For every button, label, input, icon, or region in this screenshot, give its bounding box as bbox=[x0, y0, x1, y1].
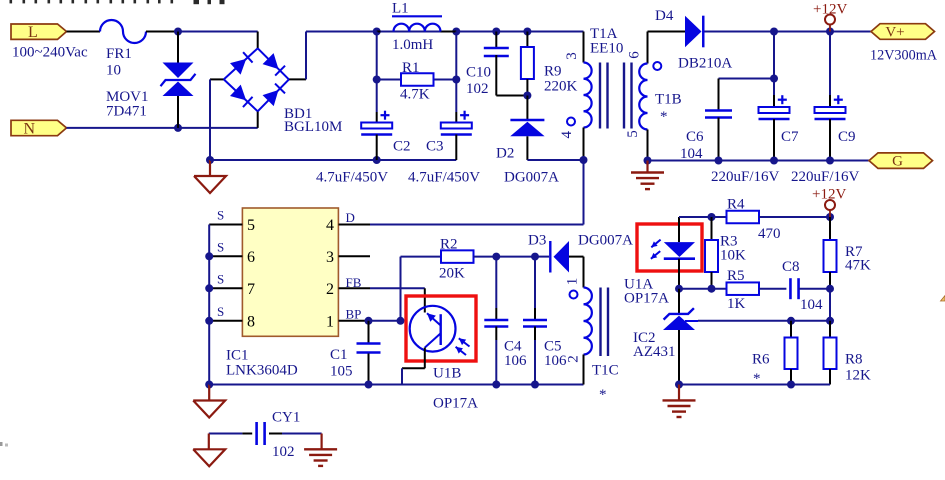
svg-text:106: 106 bbox=[504, 353, 527, 369]
svg-text:FR1: FR1 bbox=[106, 46, 132, 62]
svg-text:DG007A: DG007A bbox=[578, 233, 633, 249]
svg-text:7D471: 7D471 bbox=[106, 104, 147, 120]
svg-text:8: 8 bbox=[247, 313, 255, 330]
svg-text:*: * bbox=[599, 387, 607, 403]
svg-text:EE10: EE10 bbox=[590, 41, 623, 57]
svg-text:LNK3604D: LNK3604D bbox=[226, 363, 298, 379]
svg-text:12K: 12K bbox=[845, 368, 871, 384]
svg-text:220uF/16V: 220uF/16V bbox=[711, 169, 780, 185]
svg-text:3: 3 bbox=[564, 52, 580, 60]
svg-text:6: 6 bbox=[247, 249, 255, 266]
svg-text:IC1: IC1 bbox=[226, 348, 249, 364]
svg-text:V+: V+ bbox=[885, 25, 904, 41]
svg-text:C8: C8 bbox=[782, 259, 800, 275]
svg-text:102: 102 bbox=[272, 444, 295, 460]
svg-text:BGL10M: BGL10M bbox=[284, 119, 342, 135]
svg-text:R1: R1 bbox=[402, 60, 420, 76]
svg-text:5: 5 bbox=[625, 130, 641, 138]
svg-text:U1B: U1B bbox=[433, 366, 461, 382]
svg-text:C6: C6 bbox=[686, 129, 704, 145]
svg-text:12V300mA: 12V300mA bbox=[870, 48, 938, 64]
svg-text:220K: 220K bbox=[544, 79, 578, 95]
svg-text:20K: 20K bbox=[439, 266, 465, 282]
svg-text:6: 6 bbox=[626, 51, 642, 59]
svg-text:2: 2 bbox=[326, 281, 334, 298]
svg-text:1: 1 bbox=[564, 278, 580, 286]
svg-text:4.7uF/450V: 4.7uF/450V bbox=[408, 170, 480, 186]
svg-text:4.7K: 4.7K bbox=[400, 87, 430, 103]
svg-text:R2: R2 bbox=[440, 237, 458, 253]
svg-text:4: 4 bbox=[559, 131, 575, 139]
svg-text:R6: R6 bbox=[752, 352, 770, 368]
svg-text:1K: 1K bbox=[727, 296, 746, 312]
svg-text:D2: D2 bbox=[496, 146, 514, 162]
svg-text:N: N bbox=[24, 121, 36, 138]
svg-text:105: 105 bbox=[330, 364, 353, 380]
svg-text:CY1: CY1 bbox=[272, 410, 300, 426]
svg-text:2: 2 bbox=[566, 355, 582, 363]
svg-text:FB: FB bbox=[346, 275, 362, 290]
svg-text:C3: C3 bbox=[426, 139, 444, 155]
svg-text:L1: L1 bbox=[392, 1, 409, 17]
svg-text:R4: R4 bbox=[727, 197, 745, 213]
svg-text:104: 104 bbox=[800, 297, 823, 313]
svg-text:+12V: +12V bbox=[813, 2, 847, 18]
svg-text:D3: D3 bbox=[528, 233, 546, 249]
svg-text:DG007A: DG007A bbox=[504, 170, 559, 186]
svg-text:R5: R5 bbox=[727, 268, 745, 284]
svg-text:AZ431: AZ431 bbox=[633, 344, 676, 360]
svg-text:220uF/16V: 220uF/16V bbox=[791, 169, 860, 185]
svg-text:470: 470 bbox=[758, 226, 781, 242]
svg-text:10: 10 bbox=[106, 63, 121, 79]
svg-text:R8: R8 bbox=[845, 352, 863, 368]
svg-text:4: 4 bbox=[326, 217, 334, 234]
svg-text:7: 7 bbox=[247, 281, 255, 298]
svg-text:S: S bbox=[217, 304, 224, 319]
svg-text:R9: R9 bbox=[544, 64, 562, 80]
svg-text:OP17A: OP17A bbox=[433, 396, 478, 412]
svg-text:BP: BP bbox=[346, 307, 362, 322]
svg-text:C1: C1 bbox=[330, 347, 348, 363]
svg-text:D: D bbox=[346, 210, 355, 225]
svg-text:C9: C9 bbox=[838, 129, 856, 145]
svg-text:100~240Vac: 100~240Vac bbox=[12, 45, 88, 61]
svg-text:T1B: T1B bbox=[655, 92, 682, 108]
svg-text:C10: C10 bbox=[466, 65, 491, 81]
svg-text:S: S bbox=[217, 239, 224, 254]
svg-text:4.7uF/450V: 4.7uF/450V bbox=[316, 170, 388, 186]
svg-text:OP17A: OP17A bbox=[624, 291, 669, 307]
svg-text:*: * bbox=[660, 109, 668, 125]
svg-text:3: 3 bbox=[326, 249, 334, 266]
svg-text:S: S bbox=[217, 271, 224, 286]
svg-text:106: 106 bbox=[544, 353, 567, 369]
svg-text:T1C: T1C bbox=[592, 363, 619, 379]
svg-text:5: 5 bbox=[247, 217, 255, 234]
svg-text:1: 1 bbox=[326, 313, 334, 330]
svg-text:102: 102 bbox=[466, 81, 489, 97]
svg-text:104: 104 bbox=[680, 146, 703, 162]
svg-text:47K: 47K bbox=[845, 258, 871, 274]
svg-text:C7: C7 bbox=[781, 129, 799, 145]
svg-text:C2: C2 bbox=[393, 139, 411, 155]
svg-text:G: G bbox=[892, 154, 903, 170]
svg-text:L: L bbox=[28, 24, 38, 41]
svg-text:D4: D4 bbox=[655, 8, 674, 24]
svg-text:1.0mH: 1.0mH bbox=[392, 37, 433, 53]
svg-text:10K: 10K bbox=[720, 248, 746, 264]
svg-text:DB210A: DB210A bbox=[678, 56, 732, 72]
svg-text:S: S bbox=[217, 208, 224, 223]
svg-text:+12V: +12V bbox=[812, 187, 846, 203]
